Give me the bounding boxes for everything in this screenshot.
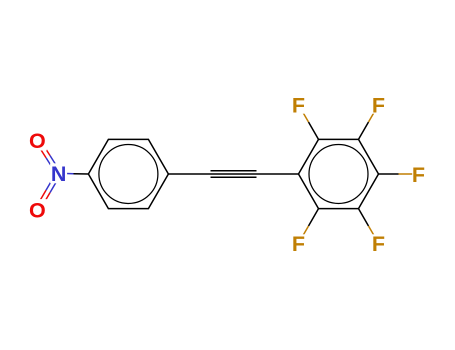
bond C-F (bottom-right) — [359, 209, 379, 244]
benzene ring of 4-nitrophenyl group — [88, 139, 168, 208]
aromatic circle (right ring) — [309, 145, 368, 204]
double bond N=O (bottom oxygen) — [35, 172, 60, 211]
bond C-F (top-left) — [299, 105, 319, 140]
svg-text:O: O — [29, 198, 46, 222]
atom label F (bottom-left) — [292, 232, 305, 256]
svg-text:F: F — [292, 94, 305, 118]
svg-text:F: F — [372, 232, 385, 256]
atom label O (nitro bottom) — [28, 198, 47, 222]
bond C-F (top-right) — [359, 105, 379, 140]
bond C-F (right) — [379, 173, 419, 175]
atom label F (top-left) — [292, 94, 305, 118]
pentafluorophenyl benzene ring — [299, 139, 379, 208]
svg-text:N: N — [51, 162, 67, 186]
atom label F (right) — [412, 163, 425, 187]
svg-text:F: F — [292, 232, 305, 256]
atom label F (bottom-right) — [372, 232, 385, 256]
bond C-F (bottom-left) — [299, 209, 319, 244]
atom label N (nitro) — [50, 162, 67, 186]
acetylene bridge: single bonds and C#C triple bond — [168, 171, 298, 177]
atom label O (nitro top) — [28, 129, 47, 153]
double bond N=O (top oxygen) — [36, 139, 61, 175]
svg-text:F: F — [412, 163, 425, 187]
aromatic circle (left ring) — [99, 145, 158, 204]
bond N-C (nitro nitrogen to ring) — [59, 172, 89, 175]
svg-text:F: F — [372, 94, 385, 118]
svg-text:O: O — [29, 129, 46, 153]
atom label F (top-right) — [372, 94, 385, 118]
